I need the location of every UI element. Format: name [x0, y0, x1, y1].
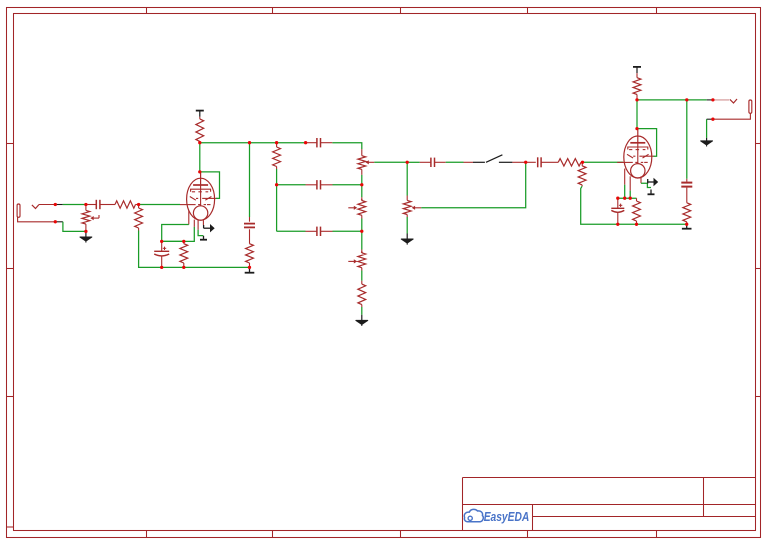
svg-text:EasyEDA: EasyEDA: [484, 509, 530, 524]
